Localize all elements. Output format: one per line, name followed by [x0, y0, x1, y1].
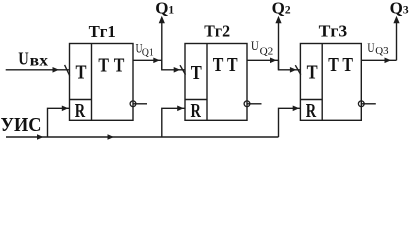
- wire bus branch to Tг2 R: [162, 108, 185, 137]
- arrowhead into Tг2 T: [174, 67, 181, 73]
- svg-text:УИС: УИС: [1, 114, 42, 136]
- wire riser Q3: [396, 21, 398, 60]
- svg-text:Q3: Q3: [375, 46, 388, 57]
- svg-text:R: R: [191, 100, 202, 122]
- wire riser Q1: [161, 21, 163, 70]
- dynamic input slash Tг3 T: [295, 65, 301, 74]
- svg-text:T: T: [114, 55, 125, 77]
- wire bus branch to Tг1 R: [48, 108, 70, 137]
- inverted output stub Tг2: [247, 103, 262, 105]
- flip-flop Tг1 body: [70, 44, 134, 121]
- svg-text:T: T: [328, 54, 339, 76]
- wire node UQ2 to Tг3 T input: [279, 60, 301, 70]
- svg-text:U: U: [18, 48, 29, 68]
- inverted output stub Tг3: [361, 103, 376, 105]
- arrowhead Q3 up: [393, 16, 399, 23]
- svg-text:T: T: [213, 54, 224, 76]
- svg-text:R: R: [306, 100, 317, 122]
- svg-text:T: T: [342, 54, 353, 76]
- svg-text:Тг2: Тг2: [204, 22, 230, 41]
- svg-text:T: T: [307, 61, 319, 83]
- wire Tг3 output to node UQ3: [361, 59, 396, 61]
- svg-text:R: R: [75, 100, 86, 122]
- arrowhead Uвх into Tг1: [53, 67, 60, 73]
- svg-text:Тг1: Тг1: [89, 22, 116, 41]
- arrowhead Tг3 output: [385, 58, 392, 64]
- wire Tг2 output to node UQ2: [247, 59, 279, 61]
- inverted output stub Tг1: [133, 103, 147, 105]
- arrowhead Tг2 output: [270, 58, 277, 64]
- wire riser Q2: [278, 21, 280, 70]
- arrowhead Q1 up: [159, 16, 165, 23]
- svg-text:Q2: Q2: [260, 46, 274, 57]
- svg-text:T: T: [227, 54, 238, 76]
- inversion circle Tг2: [244, 101, 250, 107]
- flip-flop Tг2 body: [185, 44, 247, 121]
- wire bus branch to Tг3 R: [279, 108, 301, 137]
- svg-text:T: T: [98, 55, 109, 77]
- dynamic input slash Tг2 T: [180, 65, 186, 74]
- arrowhead into Tг3 T: [290, 67, 297, 73]
- dynamic input slash Tг1 T: [65, 65, 70, 76]
- arrowhead into Tг2 R: [177, 106, 184, 112]
- reset bus УИС: [6, 136, 279, 138]
- flip-flop Tг3 body: [300, 44, 361, 121]
- wire Uвх input to Tг1: [6, 69, 70, 71]
- svg-text:вх: вх: [30, 52, 48, 69]
- svg-text:U: U: [367, 40, 375, 55]
- arrowhead into Tг3 R: [293, 106, 300, 112]
- svg-text:U: U: [251, 38, 259, 53]
- inversion circle Tг1: [130, 101, 136, 107]
- arrowhead into Tг1 R: [62, 106, 69, 112]
- svg-text:Q1: Q1: [155, 0, 174, 17]
- arrowhead bus mid: [108, 134, 115, 140]
- arrowhead Q2 up: [275, 16, 281, 23]
- wire node UQ1 to Tг2 T input: [162, 60, 185, 70]
- inversion circle Tг3: [358, 101, 364, 107]
- arrowhead Tг1 output: [153, 58, 160, 64]
- svg-text:T: T: [191, 62, 203, 84]
- wire Tг1 output to node UQ1: [133, 59, 162, 61]
- svg-text:Q1: Q1: [142, 48, 154, 59]
- arrowhead bus left: [37, 134, 44, 140]
- svg-text:Q3: Q3: [390, 0, 409, 17]
- svg-text:T: T: [76, 61, 88, 83]
- svg-text:Тг3: Тг3: [319, 22, 348, 41]
- svg-text:Q2: Q2: [272, 0, 291, 17]
